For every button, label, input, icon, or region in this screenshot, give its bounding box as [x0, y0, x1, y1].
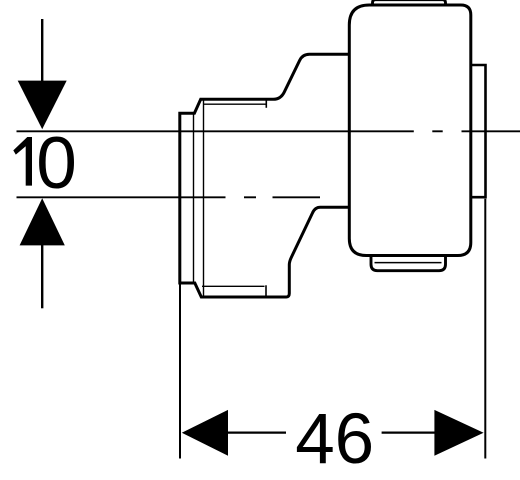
bottom mounting tab on cylinder	[371, 246, 446, 271]
dimension 46 right arrowhead	[434, 410, 483, 456]
outlet centerline right segment	[462, 130, 520, 132]
dimension 10 upper arrowhead (down)	[18, 81, 67, 130]
connector body outline with spigot	[180, 54, 349, 297]
dimension 10 lower arrowhead (up)	[20, 198, 65, 245]
dimension 46 line left segment	[227, 431, 286, 433]
outlet centerline dash	[432, 130, 442, 132]
main cylinder body (rounded rectangle)	[349, 5, 471, 256]
spigot full-diameter edge line (outer vertical)	[203, 99, 205, 297]
upper collar edge tick	[265, 99, 267, 108]
pipe centerline dash	[273, 196, 321, 198]
pipe centerline dot	[244, 196, 256, 198]
upper surface detail line	[204, 103, 266, 105]
bottom tab inner edge line	[375, 262, 442, 264]
lower collar edge tick	[265, 285, 267, 297]
lower surface detail line	[202, 285, 265, 287]
pipe centerline solid segment	[17, 196, 226, 198]
outlet centerline solid segment	[17, 130, 414, 132]
left extension line for 46	[179, 283, 181, 459]
svg-text:0: 0	[36, 123, 77, 204]
dimension 10 lower arrow stem	[41, 245, 43, 308]
right outlet boss	[462, 65, 486, 197]
spigot chamfer edge line (inner vertical)	[193, 113, 195, 283]
right extension line for 46	[484, 199, 486, 459]
dimension text 10 digit 1	[13, 137, 32, 186]
dimension 46 line right segment	[382, 431, 436, 433]
dimension 46 left arrowhead	[182, 410, 228, 456]
svg-text:46: 46	[295, 400, 374, 479]
dimension 10 upper arrow stem	[41, 19, 43, 81]
top mounting tab on cylinder	[373, 0, 446, 14]
